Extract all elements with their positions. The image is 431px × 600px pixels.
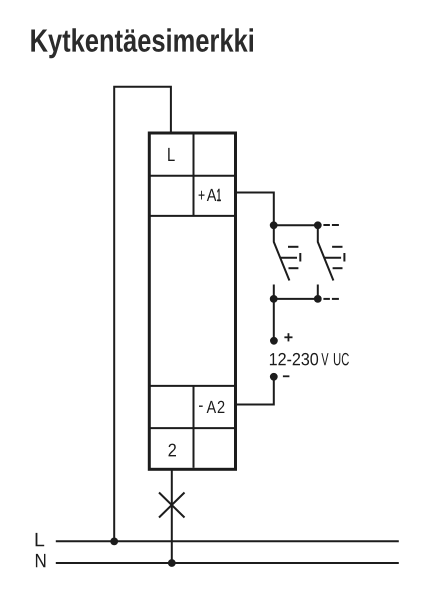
minus sign: [283, 375, 290, 377]
supply minus terminal dot: [270, 373, 278, 381]
wire bottom pushbutton bus: [274, 298, 318, 300]
label 12-230 V UC: [270, 353, 318, 366]
pushbutton S2: [318, 228, 345, 298]
terminal label +A1: [199, 191, 205, 200]
L rail: [56, 540, 399, 542]
junction dot on N rail: [168, 559, 176, 567]
wire supply minus to terminal -A2: [236, 377, 274, 405]
rail label L: [36, 533, 45, 546]
plus sign: [284, 333, 292, 341]
terminal label 2: [169, 444, 177, 457]
lamp E1: [159, 493, 185, 518]
wire +A1 to pushbutton bus: [236, 193, 274, 226]
dashed continuation top bus: [323, 224, 339, 226]
node dot bottom left: [270, 295, 278, 303]
wire bottom bus to supply plus terminal: [273, 299, 275, 341]
dashed continuation bottom bus: [323, 298, 339, 300]
junction dot on L rail: [110, 538, 118, 546]
relay K1 outline: [149, 133, 235, 469]
terminal label -A2: [199, 406, 203, 407]
supply plus terminal dot: [270, 337, 278, 345]
relay K1 terminal grid bottom: [148, 386, 237, 468]
title Kytkentaesimerkki: [31, 28, 253, 58]
terminal label L: [168, 148, 175, 161]
wire relay terminal 2 to N rail: [171, 468, 173, 563]
node dot top right: [314, 221, 322, 229]
relay K1 terminal grid top: [148, 135, 237, 216]
N rail: [56, 562, 399, 564]
pushbutton S1: [274, 228, 301, 298]
wire L rail to relay terminal L: [114, 87, 171, 542]
node dot top left: [270, 221, 278, 229]
rail label N: [36, 554, 46, 567]
wire top pushbutton bus: [274, 224, 318, 226]
node dot bottom right: [314, 295, 322, 303]
